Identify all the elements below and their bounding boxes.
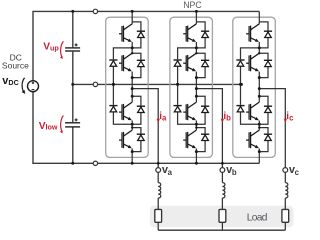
svg-text:Vlow: Vlow <box>39 121 58 132</box>
svg-text:ib: ib <box>223 111 231 123</box>
svg-text:Source: Source <box>2 61 29 71</box>
svg-text:ic: ic <box>286 111 294 123</box>
svg-text:Load: Load <box>247 212 268 223</box>
svg-text:Vup: Vup <box>43 42 59 53</box>
svg-text:NPC: NPC <box>183 0 202 10</box>
svg-text:ia: ia <box>159 111 167 123</box>
